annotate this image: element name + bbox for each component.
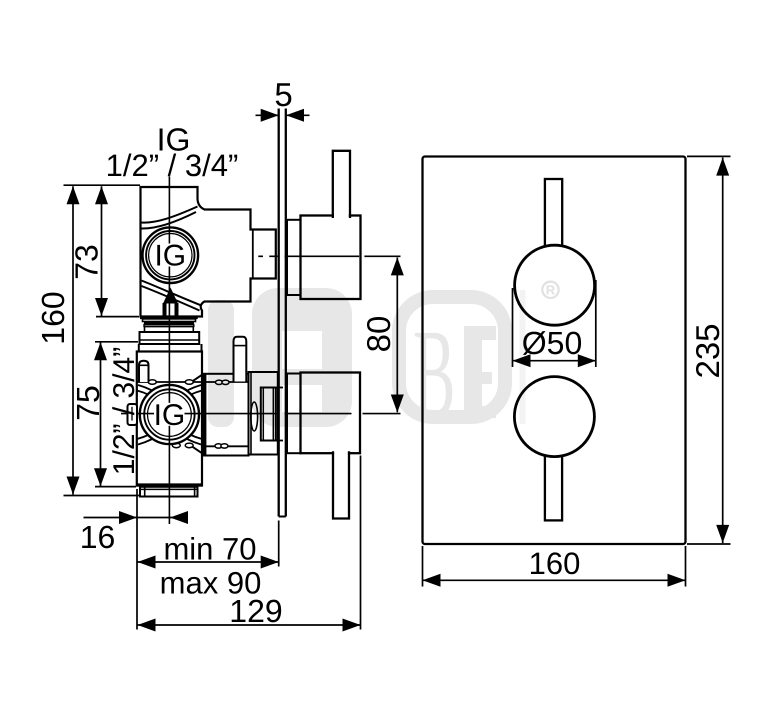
cartridge thick left edge xyxy=(203,375,207,455)
dimension 75 line xyxy=(94,342,107,486)
bottom axis centerline xyxy=(121,413,401,415)
top valve body xyxy=(141,187,276,317)
bottom knob stem xyxy=(545,450,562,520)
bottom valve main body xyxy=(137,352,202,486)
top valve upper swoosh xyxy=(142,207,198,229)
svg-text:16: 16 xyxy=(80,519,116,555)
flow arrow into top valve xyxy=(163,288,178,317)
svg-text:R: R xyxy=(546,283,556,298)
FRONTVIEW xyxy=(423,157,686,545)
dimension 160 front extension lines xyxy=(422,546,424,587)
bottom valve cartridge section xyxy=(202,374,249,456)
watermark letter i stem xyxy=(208,300,234,427)
dimension D50 line xyxy=(513,354,596,367)
svg-text:235: 235 xyxy=(689,323,726,378)
bottom IG circle xyxy=(140,385,199,444)
bottom valve bonnet xyxy=(249,372,278,455)
dimension 160 line xyxy=(67,186,80,494)
extension line plate left face xyxy=(278,521,280,567)
top valve union bands xyxy=(140,316,198,319)
bottom valve NE swoosh xyxy=(177,385,203,401)
dimension 160 front line xyxy=(423,574,686,587)
top knob xyxy=(515,245,595,325)
bonnet oval slot xyxy=(251,402,258,431)
SIDEVIEW xyxy=(121,109,401,525)
top knob stem xyxy=(545,179,562,249)
svg-text:5: 5 xyxy=(274,76,292,113)
cartridge chamfer bottom xyxy=(193,447,204,454)
svg-text:Ø50: Ø50 xyxy=(522,325,582,361)
extension line handle right face xyxy=(360,456,362,630)
dimension 5 arrows xyxy=(256,109,310,122)
cartridge chamfer top xyxy=(193,374,204,381)
bottom valve screw line bottom xyxy=(202,445,249,447)
top axis centerline xyxy=(258,255,400,257)
left stub axis tick xyxy=(131,407,133,421)
WATERMARK overlay xyxy=(208,288,526,444)
svg-text:1/2” / 3/4”: 1/2” / 3/4” xyxy=(108,347,141,475)
DIMENSIONS xyxy=(64,109,731,632)
svg-text:129: 129 xyxy=(229,593,282,629)
bottom valve right stub up xyxy=(234,337,247,382)
top handle escutcheon xyxy=(287,220,301,295)
dimension 235 extension lines xyxy=(687,155,731,157)
bottom valve screw line top xyxy=(137,381,249,383)
top handle stem xyxy=(334,152,349,218)
top valve lower swoosh xyxy=(142,281,202,311)
svg-text:75: 75 xyxy=(70,385,106,421)
front plate xyxy=(423,157,686,545)
dimension D50 extension lines xyxy=(512,288,514,367)
extension line 73 bottom xyxy=(96,316,139,318)
IG text bottom circle xyxy=(154,403,185,426)
extension line top xyxy=(64,184,141,186)
bottom valve left stub out xyxy=(128,404,138,425)
svg-text:73: 73 xyxy=(69,244,105,280)
watermark logo frame xyxy=(399,297,505,417)
bottom handle escutcheon xyxy=(287,374,301,454)
top valve union nut xyxy=(140,332,200,344)
bottom valve spindle xyxy=(261,388,276,441)
union nut skirt xyxy=(138,344,140,352)
dimension 129 line xyxy=(138,619,361,632)
bottom valve thick bottom edge xyxy=(136,483,202,486)
bottom valve left stub up xyxy=(139,361,149,382)
top handle body xyxy=(301,216,361,300)
extension line 160 bottom xyxy=(64,495,141,497)
top IG circle xyxy=(143,227,199,283)
registered mark xyxy=(542,282,558,298)
svg-text:160: 160 xyxy=(35,291,71,344)
dimension 235 line xyxy=(716,158,729,544)
watermark letter E blocky xyxy=(464,326,482,418)
IG text top circle xyxy=(155,244,186,267)
bottom valve NW swoosh xyxy=(137,385,163,401)
wall plate xyxy=(279,109,286,517)
svg-text:B: B xyxy=(413,304,455,444)
bottom port xyxy=(140,487,198,497)
svg-text:IG: IG xyxy=(154,399,186,432)
svg-text:160: 160 xyxy=(529,546,581,581)
bottom handle stem xyxy=(334,451,348,518)
top valve port inner line xyxy=(252,231,254,278)
screws top xyxy=(148,380,156,385)
bottom valve SW swoosh xyxy=(137,429,163,445)
screws bottom xyxy=(172,443,180,448)
extension line valve left face xyxy=(136,489,138,630)
dimension 80 line xyxy=(391,257,404,412)
svg-text:80: 80 xyxy=(360,316,397,353)
svg-text:1/2” / 3/4”: 1/2” / 3/4” xyxy=(106,148,239,183)
extension line 75 top xyxy=(95,341,138,343)
svg-text:IG: IG xyxy=(154,240,186,273)
svg-text:min 70: min 70 xyxy=(163,532,256,567)
dimension min70 line xyxy=(138,556,279,569)
dimension 73 line xyxy=(95,186,108,316)
watermark letter B stencil xyxy=(252,288,352,427)
dimension 16 line xyxy=(84,511,189,524)
bottom valve SE swoosh xyxy=(177,429,203,445)
extension line 75 bottom xyxy=(95,486,136,488)
main vertical centerline xyxy=(168,177,170,525)
bottom knob xyxy=(514,377,594,457)
bottom handle body xyxy=(301,373,361,454)
